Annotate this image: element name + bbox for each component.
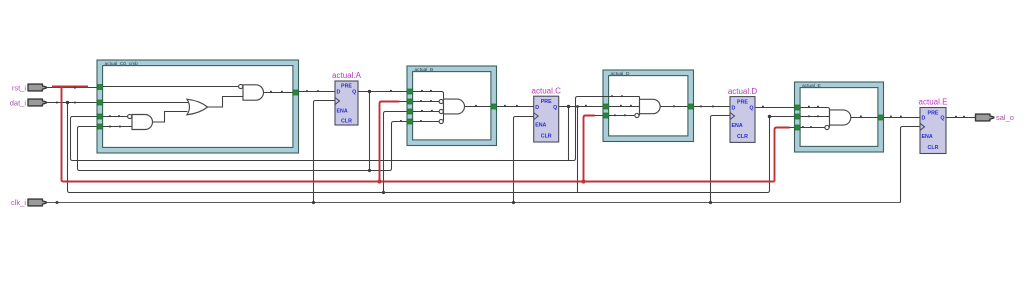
svg-text:actual.D: actual.D: [728, 87, 758, 96]
svg-text:ENA: ENA: [535, 123, 546, 129]
svg-text:Q: Q: [553, 105, 557, 111]
svg-text:ENA: ENA: [337, 108, 348, 114]
svg-text:PRE: PRE: [341, 84, 352, 90]
svg-text:actual.E: actual.E: [919, 98, 948, 107]
svg-text:Q: Q: [352, 90, 356, 96]
svg-text:rst_i: rst_i: [12, 83, 27, 92]
svg-text:D: D: [732, 105, 736, 111]
svg-text:CLR: CLR: [541, 134, 552, 140]
svg-text:PRE: PRE: [541, 99, 552, 105]
svg-text:ENA: ENA: [732, 123, 743, 129]
svg-text:CLR: CLR: [928, 145, 939, 151]
svg-text:D: D: [337, 90, 341, 96]
svg-text:D: D: [922, 116, 926, 122]
svg-text:actual.C: actual.C: [532, 86, 562, 95]
svg-text:sal_o: sal_o: [996, 113, 1014, 122]
svg-text:PRE: PRE: [928, 111, 939, 117]
svg-text:CLR: CLR: [737, 134, 748, 140]
svg-text:D: D: [535, 105, 539, 111]
svg-text:actual_C0_cmb: actual_C0_cmb: [105, 61, 139, 67]
svg-text:clk_i: clk_i: [11, 198, 26, 207]
svg-text:actual_E: actual_E: [802, 83, 821, 89]
svg-text:actual_B: actual_B: [415, 67, 434, 73]
svg-text:actual_D: actual_D: [611, 71, 630, 77]
svg-text:Q: Q: [940, 116, 944, 122]
svg-text:Q: Q: [749, 105, 753, 111]
svg-text:CLR: CLR: [341, 118, 352, 124]
svg-text:PRE: PRE: [737, 100, 748, 106]
svg-text:actual.A: actual.A: [332, 71, 362, 80]
svg-text:ENA: ENA: [922, 134, 933, 140]
svg-text:dat_i: dat_i: [10, 99, 27, 108]
